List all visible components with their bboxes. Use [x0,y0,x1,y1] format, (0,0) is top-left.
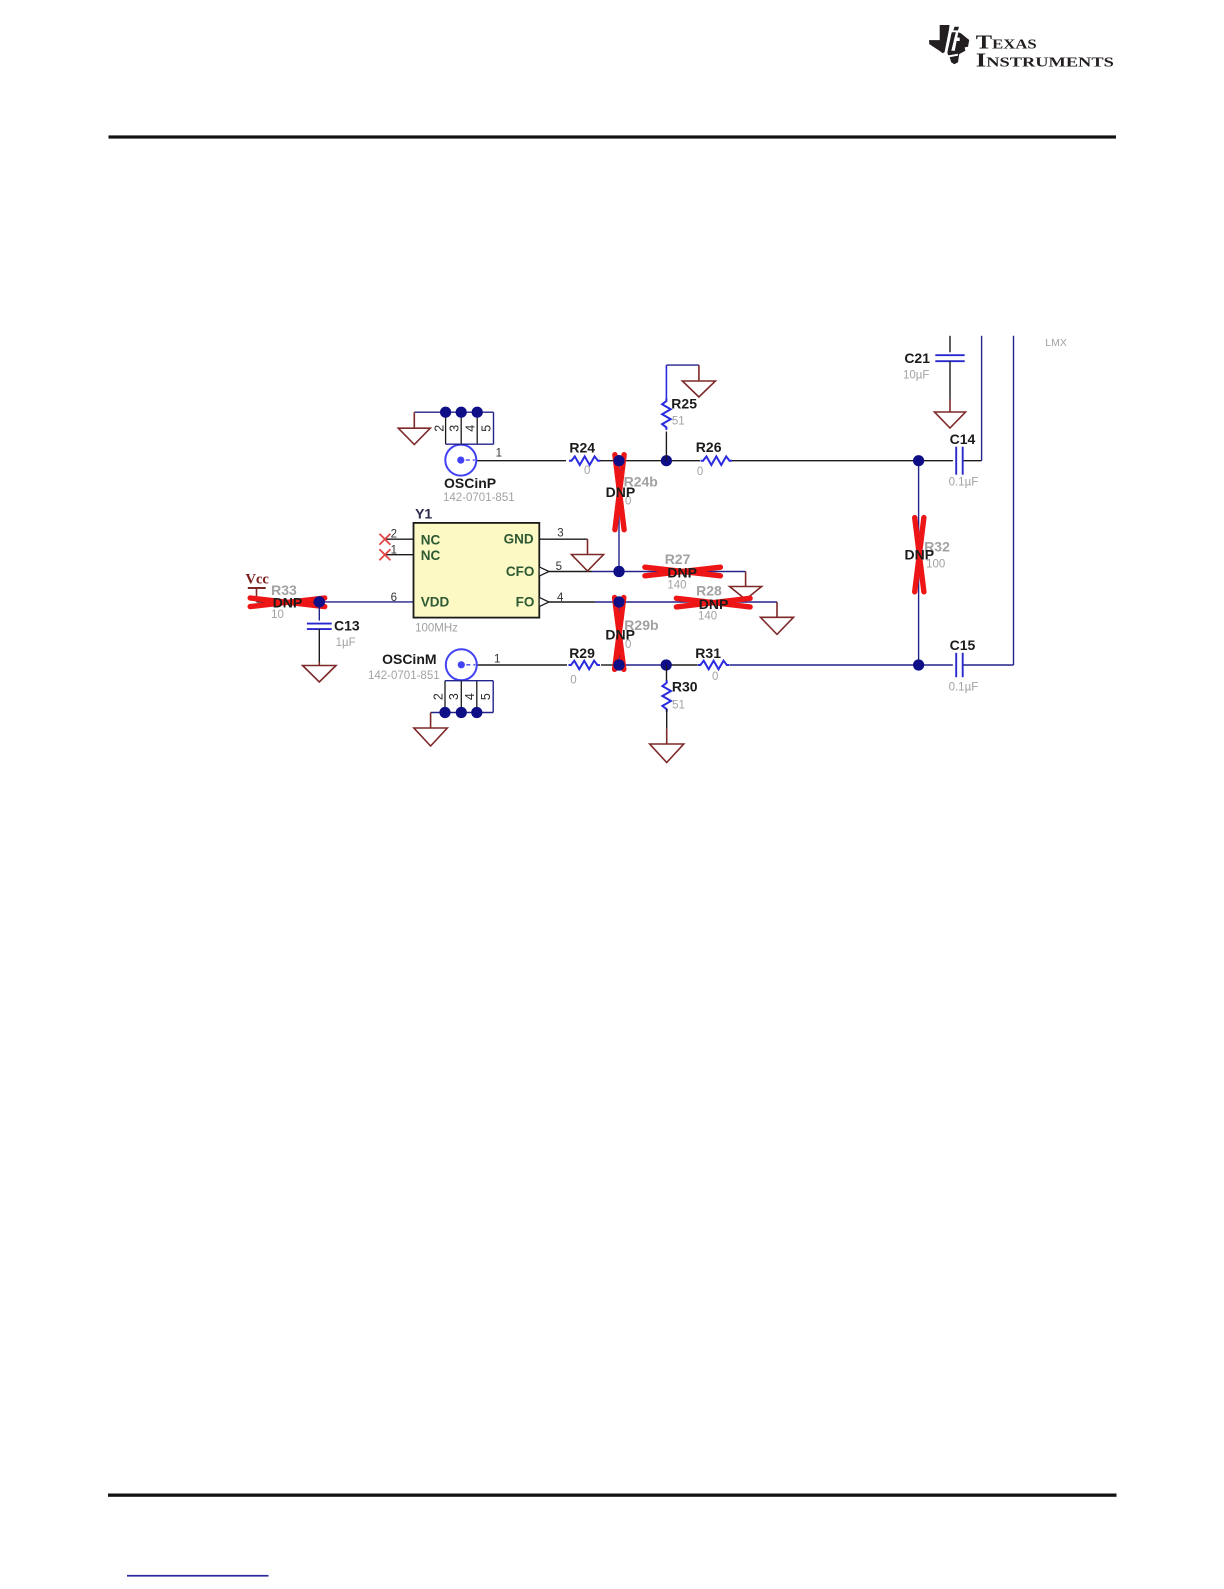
svg-text:2: 2 [432,693,446,700]
svg-text:142-0701-851: 142-0701-851 [368,670,440,682]
svg-text:NC: NC [421,532,441,547]
svg-text:0: 0 [584,465,590,477]
svg-text:0: 0 [697,466,703,478]
svg-text:R29: R29 [569,645,595,661]
svg-text:6: 6 [391,592,397,604]
svg-text:4: 4 [557,592,564,604]
svg-text:0: 0 [570,675,576,687]
svg-text:NC: NC [421,548,441,563]
svg-text:3: 3 [557,528,563,540]
svg-text:5: 5 [480,425,494,432]
svg-text:Instruments: Instruments [976,50,1114,72]
svg-text:Y1: Y1 [415,506,432,522]
svg-text:140: 140 [667,580,686,592]
svg-text:51: 51 [672,416,685,428]
svg-text:R24: R24 [569,440,595,456]
svg-text:R25: R25 [671,396,697,412]
svg-text:3: 3 [448,425,462,432]
svg-text:R31: R31 [695,645,721,661]
svg-text:4: 4 [464,425,478,432]
svg-text:C21: C21 [904,350,930,366]
svg-text:1: 1 [391,545,397,557]
svg-text:4: 4 [463,693,477,700]
svg-text:1µF: 1µF [336,637,356,649]
svg-text:DNP: DNP [667,565,697,581]
svg-text:0: 0 [712,671,718,683]
svg-text:FO: FO [516,594,535,609]
svg-text:DNP: DNP [605,627,635,643]
svg-text:LMX: LMX [1045,337,1067,349]
svg-text:OSCinM: OSCinM [382,651,436,667]
svg-text:100MHz: 100MHz [415,623,458,635]
svg-text:GND: GND [504,532,534,547]
svg-text:1: 1 [494,654,500,666]
svg-text:10: 10 [271,609,284,621]
svg-text:C15: C15 [950,637,976,653]
svg-text:DNP: DNP [606,484,636,500]
svg-text:140: 140 [698,611,717,623]
svg-text:3: 3 [447,693,461,700]
svg-text:0.1µF: 0.1µF [949,477,979,489]
svg-text:10µF: 10µF [903,370,929,382]
svg-text:DNP: DNP [273,595,303,611]
svg-text:5: 5 [479,693,493,700]
svg-text:VDD: VDD [421,594,450,609]
svg-text:C14: C14 [950,431,976,447]
svg-text:1: 1 [496,448,502,460]
svg-text:5: 5 [556,561,562,573]
svg-text:CFO: CFO [506,564,535,579]
svg-text:0.1µF: 0.1µF [949,682,979,694]
svg-text:R26: R26 [696,439,722,455]
svg-text:142-0701-851: 142-0701-851 [443,492,515,504]
svg-text:Vcc: Vcc [246,572,270,588]
svg-text:2: 2 [391,529,397,541]
svg-text:C13: C13 [334,618,360,634]
svg-text:2: 2 [432,425,446,432]
svg-text:51: 51 [672,700,685,712]
svg-text:DNP: DNP [905,547,935,563]
svg-text:R30: R30 [672,679,698,695]
svg-text:OSCinP: OSCinP [444,475,496,491]
